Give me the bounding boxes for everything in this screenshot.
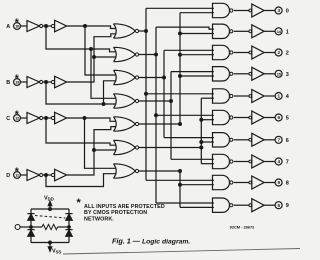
wire net G5 output	[139, 13, 214, 126]
NAND gate N6	[213, 133, 233, 147]
svg-text:2: 2	[286, 51, 289, 57]
NAND gate N2	[213, 45, 233, 59]
NAND gate N1	[213, 24, 233, 38]
inverter C1	[27, 113, 43, 124]
svg-text:VDD: VDD	[44, 196, 54, 202]
NAND gate N9	[213, 198, 233, 212]
wire buffer to output 1	[264, 30, 275, 32]
wire buffer to output 6	[264, 139, 275, 141]
node D input	[6, 166, 20, 179]
buffer U5	[249, 111, 264, 124]
NOR gate G3	[114, 70, 139, 84]
wire net G2 output	[139, 27, 214, 203]
caption Fig. 1	[112, 237, 190, 246]
node B input	[6, 73, 20, 86]
buffer U1	[249, 25, 264, 38]
NOR gate G7	[114, 164, 139, 178]
wire buffer to output 2	[264, 52, 275, 54]
wire C-complement node	[43, 117, 52, 120]
wire net C-bar	[46, 118, 116, 145]
node output 7 pin 4	[275, 158, 289, 166]
node protection input terminal	[15, 225, 31, 230]
buffer U9	[249, 199, 264, 212]
NOR gate G2	[114, 47, 139, 61]
wire net B-bar	[46, 81, 116, 106]
wire buffer to output 9	[264, 204, 275, 206]
wire N8 to buffer	[234, 182, 249, 184]
node output 2 pin 2	[275, 49, 289, 57]
wire N1 to buffer	[234, 30, 249, 32]
diode D3	[65, 214, 72, 221]
power VDD	[44, 196, 54, 211]
wire net B (true)	[67, 34, 116, 82]
svg-text:8: 8	[286, 181, 289, 187]
node output 5 pin 6	[275, 114, 289, 122]
wire N4 to buffer	[234, 95, 249, 97]
wire buffer to output 5	[264, 117, 275, 119]
wire net C (true)	[67, 117, 116, 169]
wire input B to inverter	[20, 81, 27, 83]
node output 8 pin 9	[275, 179, 289, 187]
svg-text:ALL INPUTS ARE PROTECTED: ALL INPUTS ARE PROTECTED	[84, 204, 165, 210]
wire buffer to output 3	[264, 73, 275, 75]
inverter A1	[27, 21, 43, 32]
diode D1	[27, 214, 34, 221]
svg-text:C: C	[6, 116, 10, 122]
wire N6 to buffer	[234, 139, 249, 141]
wire net G3 output	[139, 50, 214, 137]
svg-text:BY CMOS PROTECTION: BY CMOS PROTECTION	[84, 210, 147, 216]
svg-text:0: 0	[286, 9, 289, 15]
node output 0 pin 3	[275, 7, 289, 15]
wire buffer to output 8	[264, 182, 275, 184]
wire net D (true)	[67, 127, 116, 175]
NAND gate N8	[213, 175, 233, 189]
buffer U2	[249, 46, 264, 59]
buffer U8	[249, 176, 264, 189]
svg-text:A: A	[6, 24, 10, 30]
svg-text:92CM - 28672: 92CM - 28672	[230, 225, 255, 230]
power VSS	[48, 241, 61, 255]
wire N9 to buffer	[234, 204, 249, 206]
wire net G6 output	[139, 98, 214, 164]
inverter D1	[27, 170, 43, 181]
node output 1 pin 14	[275, 28, 289, 36]
NAND gate N3	[213, 67, 233, 81]
NOR gate G4	[114, 94, 139, 108]
inverter B2	[51, 76, 66, 88]
wire net A (true)	[67, 25, 116, 76]
node output 6 pin 7	[275, 136, 289, 144]
NAND gate N5	[213, 110, 233, 124]
wire A-complement node	[43, 25, 52, 28]
wire input C to inverter	[20, 117, 27, 119]
NAND gate N7	[213, 154, 233, 168]
note CMOS protection	[77, 197, 165, 222]
wire buffer to output 4	[264, 95, 275, 97]
svg-text:9: 9	[286, 203, 289, 209]
svg-text:D: D	[6, 173, 10, 179]
inverter C2	[51, 112, 66, 124]
diode D2	[27, 230, 34, 237]
wire buffer to output 0	[264, 10, 275, 12]
svg-text:VSS: VSS	[52, 249, 62, 255]
node A input	[6, 17, 20, 30]
wire D-complement node	[43, 174, 52, 177]
buffer U0	[249, 4, 264, 17]
svg-text:6: 6	[286, 138, 289, 144]
svg-text:3: 3	[286, 72, 289, 78]
wire net D-bar	[46, 174, 116, 187]
buffer U6	[249, 133, 264, 146]
NOR gate G1	[114, 24, 139, 38]
wire N7 to buffer	[234, 161, 249, 163]
svg-text:*: *	[77, 197, 82, 209]
wire N5 to buffer	[234, 117, 249, 119]
inverter A2	[51, 20, 66, 32]
node C input	[6, 109, 20, 122]
label drawing number 92CM-28672	[230, 225, 255, 230]
diode D4	[65, 230, 72, 237]
wire N2 to buffer	[234, 52, 249, 54]
wire buffer to output 7	[264, 161, 275, 163]
wire net G7 output	[139, 170, 214, 208]
NAND gate N4	[213, 89, 233, 103]
NOR gate G5	[114, 117, 139, 131]
wire scan artifact line	[63, 249, 300, 255]
wire B-complement node	[43, 81, 52, 84]
wire net A-bar	[46, 26, 116, 98]
NAND gate N0	[213, 3, 233, 17]
svg-text:7: 7	[286, 160, 289, 166]
wire N0 to buffer	[234, 10, 249, 12]
protection network frame	[31, 209, 69, 243]
wire distributed-diode dashed	[35, 216, 66, 219]
node output 3 pin 15	[275, 70, 289, 78]
svg-text:NETWORK.: NETWORK.	[84, 216, 114, 222]
resistor R1 (protection)	[30, 224, 71, 229]
buffer U7	[249, 155, 264, 168]
buffer U3	[249, 67, 264, 80]
node output 9 pin 5	[275, 202, 289, 210]
svg-text:5: 5	[286, 116, 289, 122]
wire net G4 output	[139, 72, 214, 160]
buffer U4	[249, 90, 264, 103]
svg-text:Fig. 1 — Logic diagram.: Fig. 1 — Logic diagram.	[112, 237, 190, 246]
svg-text:1: 1	[286, 29, 289, 35]
wire input D to inverter	[20, 174, 27, 176]
NOR gate G6	[114, 140, 139, 154]
inverter B1	[27, 77, 43, 88]
wire N3 to buffer	[234, 73, 249, 75]
svg-text:B: B	[6, 80, 10, 86]
inverter D2	[51, 169, 66, 181]
wire input A to inverter	[20, 25, 27, 27]
node output 4 pin 1	[275, 93, 290, 101]
wire net G1 output	[139, 8, 214, 180]
